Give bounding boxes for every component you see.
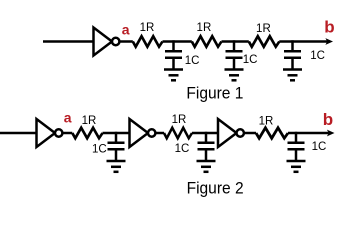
svg-text:1R: 1R — [82, 115, 97, 127]
svg-text:1R: 1R — [172, 114, 187, 126]
svg-text:1R: 1R — [259, 116, 274, 128]
svg-text:1C: 1C — [92, 144, 107, 156]
svg-text:b: b — [323, 110, 333, 129]
svg-text:1C: 1C — [310, 50, 325, 62]
svg-text:b: b — [324, 17, 334, 36]
svg-text:1R: 1R — [140, 22, 155, 34]
svg-text:1R: 1R — [256, 23, 271, 35]
svg-text:1R: 1R — [197, 22, 212, 34]
svg-text:1C: 1C — [312, 141, 327, 153]
svg-text:Figure 1: Figure 1 — [186, 84, 243, 102]
svg-text:1C: 1C — [243, 54, 258, 66]
svg-text:1C: 1C — [185, 55, 200, 67]
svg-text:a: a — [64, 110, 72, 126]
svg-text:a: a — [122, 22, 130, 38]
svg-text:1C: 1C — [175, 143, 190, 155]
svg-text:Figure 2: Figure 2 — [187, 180, 244, 198]
